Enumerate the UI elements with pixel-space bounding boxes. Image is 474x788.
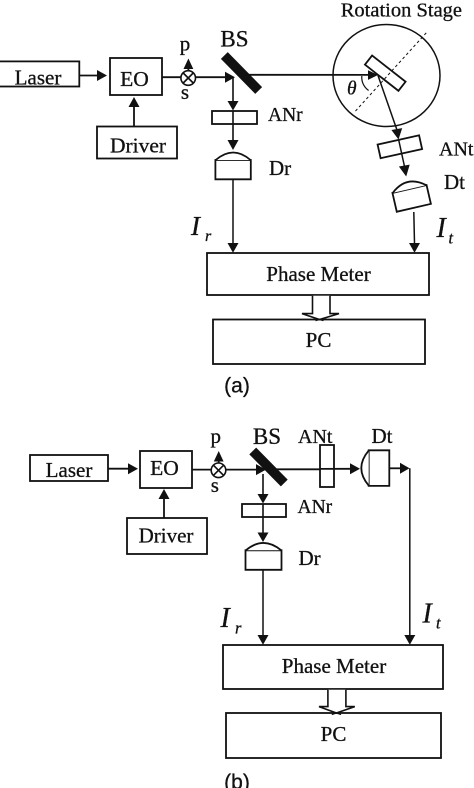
wire Dr to Phase Meter (b) [262, 570, 264, 636]
wire EO to polarizer (b) [192, 469, 211, 471]
wire Dr to Phase Meter (a) [232, 179, 234, 243]
box EO (b) [140, 451, 192, 488]
wire polarizer to BS (b) [226, 469, 256, 471]
wire BS down to ANr (a) [232, 77, 234, 101]
svg-text:I: I [422, 599, 434, 630]
svg-text:Dt: Dt [444, 170, 465, 194]
svg-text:BS: BS [220, 26, 248, 51]
svg-text:r: r [205, 228, 212, 245]
wire BS to ANt (b) [274, 468, 320, 470]
svg-text:s: s [181, 80, 189, 104]
wire corner down to Phase Meter (b) [409, 468, 411, 635]
dashed rotation axis (a) [356, 32, 428, 111]
svg-text:Phase Meter: Phase Meter [266, 262, 370, 286]
analyzer ANt (a) [378, 135, 423, 158]
polarization symbol (a) [181, 71, 196, 86]
block arrow Phase Meter to PC (b) [319, 690, 355, 713]
arrow p (a) [187, 66, 189, 71]
svg-text:Dr: Dr [269, 156, 291, 180]
svg-text:s: s [211, 473, 219, 497]
svg-text:ANr: ANr [298, 497, 333, 518]
svg-text:θ: θ [347, 79, 357, 100]
box EO (a) [110, 58, 162, 95]
svg-text:(a): (a) [224, 375, 250, 398]
svg-text:Driver: Driver [139, 524, 194, 548]
svg-text:EO: EO [150, 456, 179, 480]
svg-text:ANt: ANt [298, 426, 333, 448]
wire ANr to Dr (a) [232, 111, 234, 141]
arrow p (b) [218, 459, 220, 463]
svg-text:EO: EO [120, 67, 149, 91]
wire Driver to EO (b) [163, 498, 165, 518]
detector Dt (a) [391, 178, 431, 212]
wire EO to polarizer (a) [162, 76, 181, 78]
svg-text:Rotation Stage: Rotation Stage [341, 0, 462, 22]
svg-text:t: t [436, 614, 441, 633]
svg-text:Dt: Dt [372, 424, 393, 448]
detector Dr (a) [215, 160, 250, 179]
svg-text:(b): (b) [224, 771, 250, 788]
svg-text:Laser: Laser [46, 458, 93, 482]
svg-text:Driver: Driver [110, 134, 166, 158]
svg-text:I: I [220, 603, 232, 634]
svg-text:r: r [235, 619, 242, 638]
box Laser (b) [30, 455, 108, 481]
wire Dt to corner (b) [389, 467, 400, 469]
wire Laser to EO (a) [79, 75, 97, 77]
beam splitter BS (b) [249, 448, 287, 487]
beam splitter BS (a) [221, 52, 262, 94]
beam stage to ANt (a) [378, 76, 397, 130]
svg-text:Phase Meter: Phase Meter [282, 654, 386, 678]
box PC (a) [213, 320, 425, 365]
analyzer ANt (b) [320, 445, 334, 487]
polarization symbol (b) [211, 463, 226, 478]
wire BS to rotation stage (a) [248, 74, 369, 76]
wire polarizer to BS (a) [196, 76, 226, 78]
box Phase Meter (b) [223, 645, 443, 689]
block arrow Phase Meter to PC (a) [302, 296, 339, 320]
svg-text:p: p [180, 32, 191, 56]
svg-text:ANt: ANt [439, 139, 474, 161]
svg-text:PC: PC [306, 328, 332, 352]
svg-text:t: t [449, 229, 454, 248]
box PC (b) [226, 713, 441, 758]
wire Laser to EO (b) [108, 468, 128, 470]
svg-text:ANr: ANr [268, 105, 303, 126]
detector Dr (b) [246, 550, 282, 570]
beam ANt to Dt (a) [399, 140, 405, 167]
svg-text:I: I [436, 213, 448, 244]
wire Dt to Phase Meter (a) [413, 212, 416, 243]
svg-text:p: p [211, 424, 222, 448]
sample plate in rotation stage (a) [365, 56, 406, 91]
theta arc (a) [362, 76, 369, 91]
wire BS down to ANr (b) [262, 474, 264, 495]
rotation stage circle (a) [333, 25, 440, 127]
box Driver (a) [97, 127, 177, 159]
wire Driver to EO (a) [133, 106, 135, 127]
svg-text:Dr: Dr [299, 546, 321, 570]
wire ANr to Dr (b) [262, 504, 264, 533]
wire ANt to Dt (b) [320, 468, 350, 470]
analyzer ANr (b) [242, 504, 286, 517]
svg-text:Laser: Laser [15, 66, 62, 90]
svg-text:PC: PC [321, 722, 347, 746]
box Laser (a) [0, 61, 79, 86]
box Driver (b) [127, 518, 207, 554]
box Phase Meter (a) [207, 253, 429, 295]
svg-text:BS: BS [253, 424, 281, 449]
detector Dt (b) [369, 450, 390, 486]
analyzer ANr (a) [212, 111, 257, 124]
